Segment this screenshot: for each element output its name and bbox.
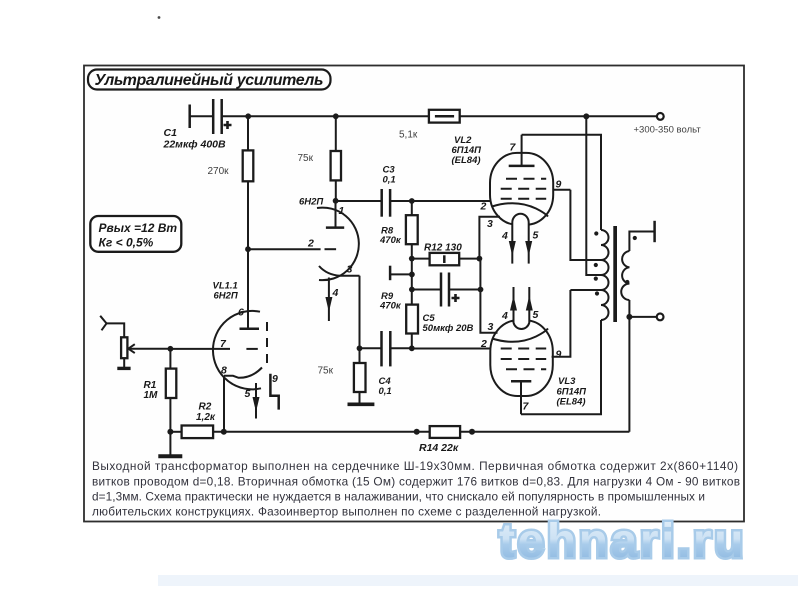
svg-text:8: 8 [221, 365, 227, 377]
wire bottom rail left [170, 431, 181, 433]
resistor R9 470к [379, 291, 418, 348]
wire VL2 anode to primary top [522, 135, 601, 230]
VL2 heater pin 5 arrow [525, 230, 538, 264]
svg-text:75к: 75к [318, 366, 334, 377]
transformer T1 secondary winding [621, 251, 629, 300]
node C5 left junction [409, 287, 415, 293]
svg-text:R12 130: R12 130 [424, 243, 462, 254]
resistor R12 130 [412, 243, 480, 266]
T-bar stub mid rail [390, 266, 412, 281]
VL1.1 heater pin 5 arrow [245, 383, 260, 419]
VL2 heater dimple [512, 214, 528, 236]
node secondary output junction [626, 314, 632, 320]
terminal +300-350 вольт [657, 113, 664, 120]
svg-text:5: 5 [533, 309, 539, 321]
svg-text:1М: 1М [144, 390, 159, 401]
svg-text:3: 3 [488, 321, 494, 333]
terminal output [657, 314, 664, 321]
VL1.1 pin 9 stub [270, 373, 278, 410]
svg-text:6: 6 [238, 307, 244, 319]
title box [88, 70, 331, 90]
schematic frame [84, 66, 744, 522]
capacitor C5 50мкф 20В [412, 273, 481, 335]
VL3 heater pin 5 arrow [526, 287, 539, 321]
resistor R2 1,2к [182, 402, 216, 439]
transformer core [613, 226, 617, 322]
wire tap VL3 screen [570, 289, 601, 291]
wire VL1.2 cathode down [359, 276, 361, 349]
VL2 grid dashes [501, 179, 547, 199]
node R2/pin8 junction [221, 429, 227, 435]
svg-text:4: 4 [332, 287, 339, 299]
wire pot to ground [123, 358, 125, 367]
wire top rail [222, 115, 429, 117]
VL1.1 separator dashed [266, 322, 268, 370]
node rail top junction [409, 198, 415, 204]
resistor 75к (cathode VL1.2) [318, 348, 366, 403]
node junction 75k top [333, 113, 339, 119]
wire to B+ terminal [460, 115, 657, 117]
ground below 75к [348, 402, 375, 406]
node R12 left junction [409, 256, 415, 262]
secondary tap dot [625, 280, 629, 284]
wire 270k to VL1.2 grid node [247, 181, 249, 328]
svg-text:3: 3 [347, 264, 353, 276]
VL3 heater pin 4 arrow [501, 287, 517, 322]
svg-text:0,1: 0,1 [379, 386, 392, 397]
wire pin8 drop [223, 376, 225, 432]
wire tap VL2 screen [570, 190, 601, 260]
T-bar secondary terminal [653, 221, 656, 242]
svg-text:3: 3 [487, 218, 493, 230]
VL1.1 cathode pin 8 [221, 365, 262, 378]
wire secondary bottom [628, 300, 630, 432]
svg-text:2: 2 [480, 338, 487, 350]
svg-text:(EL84): (EL84) [557, 397, 586, 408]
svg-text:9: 9 [556, 349, 562, 361]
svg-text:1: 1 [339, 205, 345, 217]
svg-text:5: 5 [245, 388, 251, 400]
svg-text:6Н2П: 6Н2П [214, 291, 238, 302]
faint blue band bottom [158, 575, 798, 586]
wire to VL3 grid [412, 348, 491, 350]
potentiometer [121, 337, 127, 358]
svg-text:22мкф 400В: 22мкф 400В [163, 139, 226, 151]
svg-text:2: 2 [307, 238, 314, 250]
VL1.2 heater pin 4 arrow [325, 278, 338, 322]
svg-text:50мкф 20В: 50мкф 20В [423, 323, 474, 334]
node R12 right junction [477, 256, 483, 262]
transformer T1 primary winding [601, 230, 609, 320]
svg-text:Ультралинейный усилитель: Ультралинейный усилитель [95, 72, 324, 89]
svg-text:0,1: 0,1 [383, 175, 396, 186]
VL3 heater dimple [514, 310, 530, 330]
VL2 cathode [492, 203, 548, 216]
node R14 right [469, 429, 475, 435]
svg-text:270к: 270к [208, 166, 230, 177]
ground below pot [117, 367, 130, 370]
spec box Pвых/Кг [90, 216, 181, 252]
wire bottom rail right [460, 431, 629, 433]
node C4/R9 junction [409, 345, 415, 351]
primary polarity dots [594, 231, 598, 235]
input fork [100, 316, 106, 331]
VL2 pin 9 wire [553, 179, 570, 191]
svg-text:Рвых =12 Вт: Рвых =12 Вт [99, 221, 178, 235]
svg-text:Выходной трансформатор выполне: Выходной трансформатор выполнен на серде… [92, 459, 738, 473]
node C5 right junction [478, 287, 484, 293]
svg-text:(EL84): (EL84) [452, 155, 481, 166]
svg-text:d=1,3мм. Схема практически не: d=1,3мм. Схема практически не нуждается … [92, 490, 705, 504]
svg-text:75к: 75к [298, 153, 314, 164]
node C4/75k junction [357, 345, 363, 351]
svg-text:tehnari.ru: tehnari.ru [499, 515, 742, 568]
stray dot top-left [158, 16, 161, 19]
svg-text:470к: 470к [379, 301, 402, 312]
triode VL1.2 envelope [317, 208, 359, 281]
svg-text:витков проводом d=0,18. Вторич: витков проводом d=0,18. Вторичная обмотк… [92, 475, 740, 489]
svg-text:4: 4 [501, 310, 508, 322]
triode VL1.1 envelope [213, 311, 261, 389]
description paragraph [92, 459, 740, 519]
wire VL3 anode to primary bottom [521, 320, 601, 414]
node R1/bottom wire junction [167, 429, 173, 435]
svg-text:4: 4 [501, 230, 508, 242]
wire to output terminal [629, 316, 656, 318]
resistor 270к [208, 116, 254, 181]
resistor R1 1M [144, 349, 177, 456]
pentode VL3 envelope [490, 320, 553, 396]
VL3 pin 9 wire [552, 290, 571, 361]
svg-text:5: 5 [533, 230, 539, 242]
wire grid VL1.2 [248, 248, 321, 250]
capacitor C4 [360, 331, 412, 397]
VL3 cathode [492, 329, 548, 342]
VL1.1 grid pin 7 [170, 338, 257, 350]
node pot/R1 junction [168, 346, 174, 352]
node grid junction VL1.2 [245, 246, 251, 252]
node R14 left [414, 429, 420, 435]
node B+ junction [583, 113, 589, 119]
svg-text:5,1к: 5,1к [399, 130, 418, 141]
resistor 75к (anode VL1.2) [298, 116, 342, 201]
svg-text:Кг < 0,5%: Кг < 0,5% [99, 236, 154, 250]
VL1.2 cathode [319, 266, 360, 276]
ground below R1 [158, 454, 182, 458]
wire input to pot [107, 323, 125, 337]
resistor R14 22к [419, 426, 460, 454]
svg-text:9: 9 [556, 179, 562, 191]
VL3 anode pin 7 [511, 381, 531, 414]
VL1.1 anode pin 6 [238, 307, 259, 329]
svg-text:2: 2 [480, 201, 487, 213]
svg-text:9: 9 [272, 373, 278, 385]
pentode VL2 envelope [490, 153, 553, 225]
wire VL2 cathode riser [479, 217, 500, 259]
wire secondary top to T-bar [629, 232, 654, 252]
wire C3 node to VL2 grid [412, 200, 491, 202]
svg-text:C1: C1 [164, 127, 178, 139]
svg-text:6Н2П: 6Н2П [299, 197, 323, 208]
svg-text:+300-350 вольт: +300-350 вольт [634, 125, 702, 136]
node 75k/C3/anode junction [333, 198, 339, 204]
VL2 heater pin 4 arrow [501, 230, 516, 264]
pot wiper arrow [128, 344, 135, 353]
VL3 grid dashes [501, 349, 547, 370]
wire rail R8-R9 [411, 244, 413, 304]
node T-bar junction [409, 272, 415, 278]
VL2 anode pin 7 [509, 135, 535, 166]
svg-text:R14 22к: R14 22к [419, 442, 459, 454]
resistor 5,1к [399, 110, 460, 141]
wire tap B+ center [586, 116, 601, 275]
wire bottom rail middle [213, 431, 430, 433]
svg-text:R2: R2 [199, 402, 212, 413]
capacitor C1 [163, 99, 232, 151]
capacitor C3 [336, 165, 412, 217]
VL1.2 anode pin 1 [326, 201, 345, 228]
secondary polarity dot top [633, 236, 637, 240]
node junction C1/270k [245, 113, 251, 119]
svg-text:470к: 470к [379, 235, 402, 246]
wire VL3 cathode riser [480, 259, 497, 333]
resistor R8 470к [379, 201, 418, 246]
svg-text:VL3: VL3 [558, 376, 576, 387]
svg-text:1,2к: 1,2к [196, 412, 216, 423]
